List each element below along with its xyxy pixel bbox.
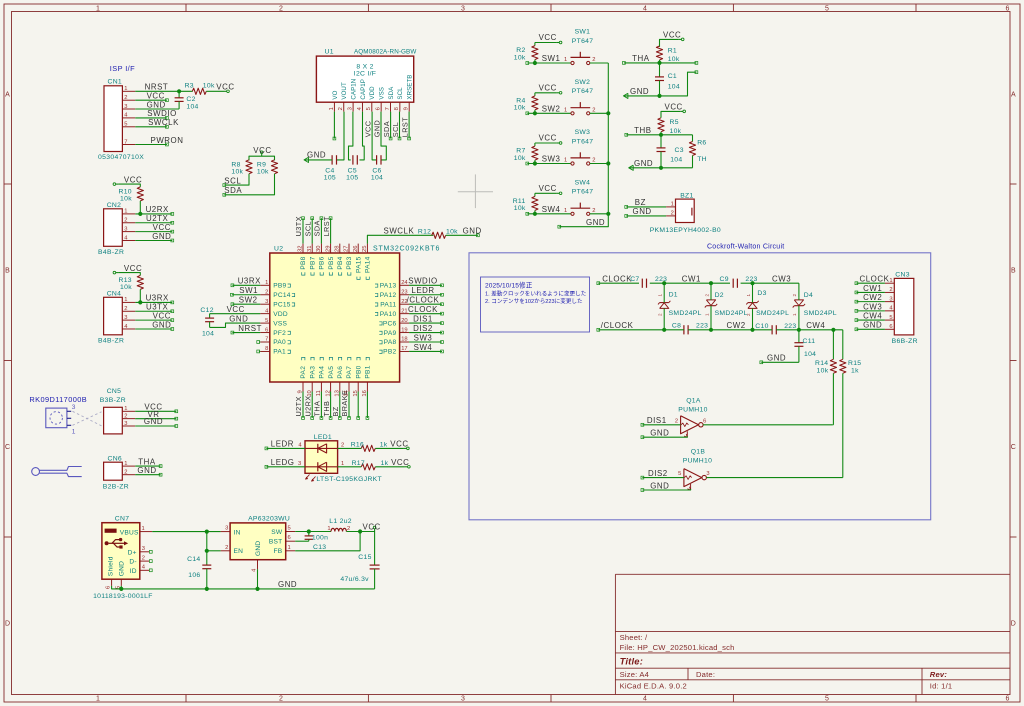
pin 4 U1 CAP1P	[361, 102, 363, 111]
pin 28 U2 PB4	[339, 244, 341, 253]
svg-text:ISP I/F: ISP I/F	[110, 64, 135, 73]
pin 2 CN4	[122, 310, 135, 312]
svg-text:6: 6	[288, 535, 291, 541]
svg-text:10k: 10k	[668, 56, 680, 63]
svg-text:U3TX: U3TX	[294, 216, 303, 236]
wire GND C11	[761, 361, 799, 363]
pin 1 U3 FB	[286, 550, 296, 552]
svg-text:5: 5	[825, 695, 829, 702]
capacitor C6	[376, 155, 378, 164]
pin 20 U2 PC6	[400, 322, 410, 324]
svg-text:1: 1	[96, 6, 100, 13]
resistor R13	[137, 275, 143, 289]
svg-text:1: 1	[671, 201, 674, 207]
pin 1 CN6	[122, 465, 135, 467]
svg-text:9: 9	[404, 107, 410, 110]
svg-text:1: 1	[341, 461, 344, 467]
svg-text:2: 2	[792, 294, 797, 297]
svg-text:STM32C092KBT6: STM32C092KBT6	[373, 245, 440, 252]
svg-text:DIS2: DIS2	[413, 324, 433, 333]
svg-text:1. 差動クロックをいれるように変更した: 1. 差動クロックをいれるように変更した	[485, 290, 587, 298]
resistor R8	[246, 160, 252, 174]
svg-text:C5: C5	[348, 167, 357, 174]
junction D2 bottom	[709, 328, 713, 332]
svg-text:D: D	[5, 621, 10, 628]
pin 24 U2 PA13	[400, 284, 410, 286]
resistor R3	[192, 88, 206, 94]
wire BZ net	[626, 206, 666, 208]
svg-text:CW3: CW3	[863, 302, 882, 311]
svg-text:4: 4	[643, 6, 647, 13]
pin 1 CN7 VBUS	[140, 531, 152, 533]
buzzer BZ1	[676, 199, 695, 222]
svg-text:FB: FB	[273, 548, 282, 555]
svg-text:104: 104	[804, 351, 816, 358]
capacitor C15	[374, 532, 376, 566]
svg-text:U2TX: U2TX	[146, 214, 169, 223]
svg-text:R12: R12	[418, 228, 431, 235]
svg-text:SWCLK: SWCLK	[384, 227, 415, 236]
power VCC U3 out	[374, 529, 376, 532]
capacitor C10	[771, 325, 773, 334]
svg-text:D4: D4	[804, 292, 813, 299]
svg-text:6: 6	[1005, 695, 1009, 702]
svg-text:PA14: PA14	[365, 256, 372, 273]
svg-text:R9: R9	[257, 161, 266, 168]
svg-text:GND: GND	[307, 151, 326, 160]
svg-text:1: 1	[124, 297, 127, 303]
svg-text:2: 2	[746, 313, 751, 316]
svg-text:10k: 10k	[514, 205, 526, 212]
wire /CLOCK U2 pin22	[409, 303, 442, 305]
junction VBUS C14	[205, 530, 209, 534]
svg-text:10k: 10k	[120, 284, 132, 291]
wire SWDIO U2 pin24	[409, 284, 442, 286]
svg-text:47u/6.3v: 47u/6.3v	[340, 576, 369, 583]
svg-text:SMD24PL: SMD24PL	[715, 310, 748, 317]
wire FB feedback	[295, 532, 360, 551]
svg-text:PA2: PA2	[300, 366, 307, 379]
svg-text:C: C	[1011, 444, 1016, 451]
svg-text:SWCLK: SWCLK	[148, 118, 179, 127]
capacitor C4	[331, 155, 333, 164]
svg-text:223: 223	[784, 323, 796, 330]
svg-text:SCL: SCL	[224, 176, 241, 185]
svg-text:3: 3	[142, 546, 145, 552]
power VCC R13	[116, 272, 119, 274]
svg-text:L1 2u2: L1 2u2	[329, 518, 352, 525]
svg-text:3: 3	[298, 461, 301, 467]
wire U2 pin9 bottom	[302, 392, 304, 419]
svg-text:R15: R15	[848, 360, 861, 367]
svg-text:LEDR: LEDR	[411, 286, 434, 295]
usb icon	[105, 529, 117, 533]
wire U2 pin12 bottom	[330, 392, 332, 419]
power GND THB	[629, 165, 634, 170]
capacitor C1	[659, 63, 661, 77]
wire U1 pin3 CAP1N to C5	[349, 112, 353, 160]
svg-text:3: 3	[72, 404, 76, 411]
svg-text:SW3: SW3	[414, 333, 433, 342]
wire THB net	[626, 134, 692, 136]
svg-text:SCL: SCL	[303, 221, 312, 236]
svg-text:5: 5	[889, 315, 892, 321]
svg-text:2: 2	[658, 313, 663, 316]
pin 4 CN7 ID	[140, 569, 150, 571]
svg-text:10k: 10k	[446, 229, 458, 236]
IC U3 AP63203WU	[230, 523, 286, 560]
svg-text:3: 3	[461, 6, 465, 13]
svg-text:B: B	[1011, 268, 1016, 275]
svg-text:XRSETB: XRSETB	[407, 75, 414, 100]
capacitor C14	[206, 532, 208, 551]
svg-text:106: 106	[188, 572, 200, 579]
svg-text:3: 3	[225, 526, 228, 532]
svg-text:1: 1	[124, 209, 127, 215]
svg-text:25: 25	[362, 246, 368, 252]
svg-text:1: 1	[124, 461, 127, 467]
svg-text:SDA: SDA	[388, 86, 395, 100]
wire GND U2 pin5 to C12	[210, 323, 261, 327]
junction R13-CN4	[138, 300, 142, 304]
junction bus SW3	[606, 161, 610, 165]
pin 17 U2 PB2	[400, 350, 410, 352]
svg-text:PA13: PA13	[380, 283, 397, 290]
svg-text:C9: C9	[720, 276, 729, 283]
svg-text:VCC: VCC	[147, 92, 165, 101]
svg-text:R16: R16	[351, 442, 364, 449]
svg-text:VCC: VCC	[665, 103, 683, 112]
resistor R11	[532, 196, 538, 210]
svg-text:SW3: SW3	[542, 155, 561, 164]
svg-text:CLOCK: CLOCK	[860, 275, 890, 284]
svg-text:R4: R4	[516, 98, 525, 105]
svg-text:D2: D2	[715, 292, 724, 299]
wire /CLOCK net	[598, 329, 664, 331]
wire SW1 U2 pin2	[232, 294, 260, 296]
svg-text:PC15: PC15	[273, 301, 291, 308]
pin 2 CN3	[885, 291, 894, 293]
transistor Q1A PUMH10	[681, 416, 699, 434]
junction U3 GND rail	[255, 587, 259, 591]
svg-text:VDD: VDD	[273, 311, 288, 318]
svg-text:10k: 10k	[514, 155, 526, 162]
wire U1 pin2 VOUT to C4	[337, 112, 345, 160]
svg-text:D: D	[1011, 621, 1016, 628]
power VCC R3	[224, 90, 227, 92]
svg-text:31: 31	[307, 246, 313, 252]
svg-text:CW4: CW4	[806, 321, 825, 330]
transistor Q1B PUMH10	[684, 469, 702, 487]
svg-text:5: 5	[288, 526, 291, 532]
svg-text:PB0: PB0	[355, 365, 362, 378]
svg-text:U1: U1	[325, 49, 334, 56]
svg-text:R8: R8	[231, 161, 240, 168]
svg-text:SW3: SW3	[575, 129, 591, 136]
svg-text:PWRON: PWRON	[151, 136, 184, 145]
svg-text:D3: D3	[757, 290, 766, 297]
svg-text:10k: 10k	[231, 168, 243, 175]
svg-text:THB: THB	[322, 401, 331, 417]
pin 4 CN3	[885, 310, 894, 312]
wire SW2 to bus	[590, 112, 609, 114]
svg-text:VCC: VCC	[124, 175, 142, 184]
svg-text:VCC: VCC	[539, 33, 557, 42]
pin 5 U2 VSS	[260, 322, 270, 324]
svg-text:B2B-ZR: B2B-ZR	[103, 484, 129, 491]
svg-text:LRST: LRST	[400, 117, 409, 137]
svg-text:1: 1	[704, 313, 709, 316]
svg-text:D1: D1	[669, 291, 678, 298]
pin 3 CN5	[122, 425, 135, 427]
svg-text:CN5: CN5	[107, 388, 122, 395]
junction THA-R1	[657, 61, 661, 65]
junction R7-SW3	[533, 161, 537, 165]
svg-text:6: 6	[889, 324, 892, 330]
wire SWCLK U2 pin25 to R12	[367, 235, 433, 243]
svg-text:3: 3	[348, 107, 354, 110]
svg-text:10k: 10k	[203, 82, 215, 89]
wire VCC-R13	[118, 273, 140, 276]
wire U1 pin1 VO stub	[333, 112, 335, 139]
wire CW4 CN3	[856, 319, 885, 321]
svg-text:1: 1	[564, 208, 567, 214]
svg-text:10k: 10k	[120, 196, 132, 203]
wire U1 pin4 CAP1P to C5	[360, 112, 365, 160]
svg-text:Date:: Date:	[696, 670, 715, 679]
pin 3 U3 IN	[221, 531, 230, 533]
wire R8-SCL	[224, 174, 249, 185]
junction D1 bottom	[662, 328, 666, 332]
svg-text:PA9: PA9	[384, 330, 397, 337]
svg-text:NRST: NRST	[238, 324, 262, 333]
svg-text:Q1B: Q1B	[691, 449, 706, 456]
svg-text:GND: GND	[152, 320, 171, 329]
wire U3TX U2 pin32	[302, 218, 304, 243]
wire SWCLK CN1	[135, 126, 167, 128]
pin 1 U2 PB9	[260, 284, 270, 286]
svg-text:R3: R3	[185, 82, 194, 89]
svg-text:GND: GND	[147, 100, 166, 109]
graphic LED arrows	[306, 475, 310, 480]
svg-text:104: 104	[202, 331, 214, 338]
wire NRST U2 pin6	[232, 332, 260, 334]
junction C14 GND rail	[205, 587, 209, 591]
svg-text:PA0: PA0	[273, 339, 286, 346]
svg-text:2: 2	[704, 294, 709, 297]
pin 4 CN4	[122, 328, 135, 330]
power VCC R16	[404, 447, 407, 449]
svg-text:PA11: PA11	[380, 301, 396, 308]
wire SWDIO CN1	[135, 117, 167, 119]
svg-text:CN6: CN6	[108, 455, 123, 462]
svg-text:1: 1	[124, 86, 127, 92]
svg-text:1: 1	[265, 280, 268, 286]
power VCC R4	[535, 92, 557, 94]
svg-text:2: 2	[265, 289, 268, 295]
svg-text:SDA: SDA	[224, 186, 242, 195]
wire GND CN2	[135, 239, 172, 241]
svg-text:2: 2	[675, 418, 678, 424]
wire VCC CN4	[135, 319, 172, 321]
wire SW3 U2 pin18	[409, 341, 442, 343]
power VCC R1	[660, 39, 679, 47]
svg-text:U3RX: U3RX	[238, 277, 261, 286]
svg-text:2: 2	[279, 695, 283, 702]
diode D2 SMD24PL	[706, 305, 715, 307]
junction NRST	[177, 89, 181, 93]
resistor R9	[271, 160, 277, 174]
svg-text:1: 1	[746, 294, 751, 297]
wire U2TX CN2	[135, 222, 172, 224]
svg-text:3: 3	[124, 315, 127, 321]
pin 22 U2 PA11	[400, 303, 410, 305]
svg-text:SWDIO: SWDIO	[147, 109, 177, 118]
svg-text:CW4: CW4	[863, 311, 882, 320]
svg-text:U2TX: U2TX	[294, 396, 303, 416]
pin 2 BZ1	[666, 215, 675, 217]
thermistor R6	[692, 135, 694, 142]
resistor R17	[338, 466, 362, 468]
svg-text:18: 18	[401, 337, 407, 343]
svg-text:100n: 100n	[312, 534, 328, 541]
svg-text:1: 1	[72, 428, 76, 435]
svg-text:R17: R17	[352, 460, 365, 467]
capacitor C9	[732, 279, 734, 288]
wire Q1A out to R14	[703, 424, 832, 426]
wire GND Q1B	[642, 489, 690, 490]
wire CLOCK net	[598, 282, 639, 284]
svg-text:GND: GND	[463, 227, 482, 236]
svg-text:SCL: SCL	[391, 122, 400, 137]
wire CLOCK CN3	[856, 282, 885, 284]
svg-text:Shield: Shield	[107, 556, 114, 576]
svg-text:10k: 10k	[514, 105, 526, 112]
junction THB-R5	[659, 133, 663, 137]
svg-text:VCC: VCC	[216, 83, 234, 92]
svg-text:105: 105	[324, 175, 336, 182]
svg-text:2: 2	[124, 218, 127, 224]
wire VCC-R10	[118, 184, 140, 187]
wire U3RX CN4	[135, 301, 172, 303]
junction SW C13	[307, 529, 311, 533]
svg-text:2: 2	[671, 210, 674, 216]
pin 1 BZ1	[666, 206, 675, 208]
svg-text:CW3: CW3	[772, 275, 791, 284]
pin 5 CN1	[122, 126, 135, 128]
pin 1 U1 VO	[333, 102, 335, 111]
IC U1 AQM0802A	[316, 56, 413, 102]
svg-text:PB4: PB4	[337, 256, 344, 269]
junction R11-SW4	[533, 212, 537, 216]
svg-text:223: 223	[696, 323, 708, 330]
pin 2 CN7 D-	[140, 560, 150, 562]
svg-text:1: 1	[889, 278, 892, 284]
svg-text:104: 104	[186, 103, 198, 110]
svg-text:2: 2	[592, 158, 595, 164]
pin 3 CN3	[885, 301, 894, 303]
svg-text:C15: C15	[358, 554, 371, 561]
svg-text:VSS: VSS	[273, 320, 287, 327]
svg-text:DIS2: DIS2	[648, 469, 668, 478]
svg-text:EN: EN	[234, 548, 244, 555]
svg-text:C8: C8	[672, 323, 681, 330]
wire C9-CW3	[711, 282, 730, 284]
svg-text:R1: R1	[668, 47, 677, 54]
svg-text:IN: IN	[234, 529, 241, 536]
svg-text:Size: A4: Size: A4	[620, 670, 649, 679]
pin 6 U2 PF2	[260, 332, 270, 334]
svg-text:PA3: PA3	[309, 366, 316, 379]
pin 7 CN1	[122, 144, 135, 146]
svg-text:3: 3	[124, 104, 127, 110]
svg-text:A: A	[5, 92, 10, 99]
svg-text:6: 6	[376, 107, 382, 110]
svg-text:3: 3	[706, 471, 709, 477]
svg-text:6: 6	[703, 418, 706, 424]
svg-text:2: 2	[338, 107, 344, 110]
svg-text:AP63203WU: AP63203WU	[248, 516, 290, 523]
wire GND-C4	[305, 159, 333, 161]
svg-text:GND: GND	[633, 207, 652, 216]
connector CN4	[104, 297, 123, 335]
wire U2 pin13 bottom	[339, 392, 341, 419]
svg-text:Sheet: /: Sheet: /	[620, 633, 648, 642]
power VCC R10	[116, 183, 119, 185]
wire U3TX CN4	[135, 310, 172, 312]
wire CW1 CN3	[856, 291, 885, 293]
capacitor C13	[308, 532, 310, 536]
pin 11 U2 PA4	[320, 382, 322, 392]
svg-text:CW1: CW1	[863, 284, 882, 293]
pin 1 CN3	[885, 282, 894, 284]
svg-text:PB1: PB1	[365, 365, 372, 378]
svg-text:LED1: LED1	[314, 434, 332, 441]
svg-text:SDA: SDA	[382, 121, 391, 137]
svg-text:C: C	[5, 444, 10, 451]
svg-text:10k: 10k	[514, 54, 526, 61]
graphic dashed cross wires	[73, 411, 102, 426]
power GND THA	[623, 93, 628, 98]
diode D1 SMD24PL	[660, 302, 669, 304]
svg-text:BRAKE: BRAKE	[340, 390, 349, 417]
wire U1 pin8 SCL stub	[399, 112, 401, 139]
svg-text:SMD24PL: SMD24PL	[669, 310, 702, 317]
svg-text:21: 21	[401, 308, 407, 314]
svg-text:PUMH10: PUMH10	[678, 407, 707, 414]
svg-text:CW2: CW2	[727, 321, 746, 330]
wire U2RX CN2	[135, 213, 172, 215]
graphic potentiometer	[46, 408, 67, 428]
connector CN5	[104, 407, 123, 434]
svg-text:CW1: CW1	[682, 275, 701, 284]
svg-text:B4B-ZR: B4B-ZR	[98, 338, 124, 345]
power GND U1	[304, 157, 309, 162]
wire LRST U2 pin29	[330, 218, 332, 243]
wire SDA U2 pin30	[320, 218, 322, 243]
pin 6 U1 VSS	[380, 102, 382, 111]
svg-text:1k: 1k	[380, 442, 388, 449]
svg-text:2: 2	[889, 287, 892, 293]
svg-text:2: 2	[124, 95, 127, 101]
pin 4 CN1	[122, 117, 135, 119]
wire U2 pin15 bottom	[357, 392, 359, 419]
wire R3-VCC	[206, 90, 224, 92]
svg-text:2: 2	[592, 208, 595, 214]
svg-text:5: 5	[265, 318, 268, 324]
svg-text:SWDIO: SWDIO	[408, 277, 438, 286]
svg-text:VCC: VCC	[363, 522, 381, 531]
